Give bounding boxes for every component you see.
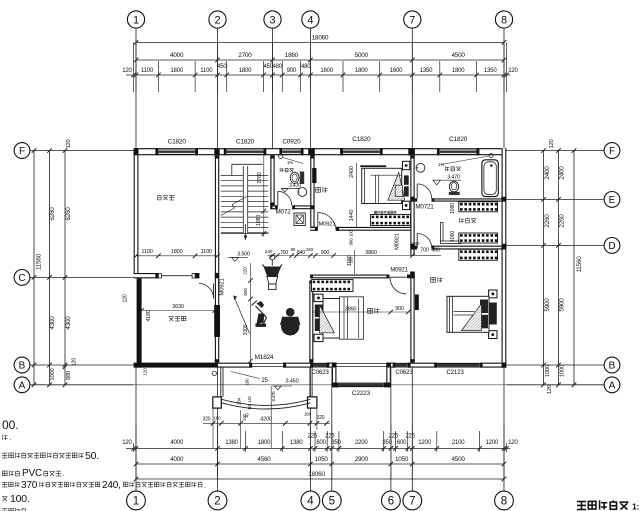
vert dim col x250 xyxy=(242,263,253,363)
dimension row top segments xyxy=(122,64,518,77)
door M0921 bedroom2 xyxy=(390,268,409,295)
svg-text:120: 120 xyxy=(508,440,518,446)
label sunroom xyxy=(169,316,186,321)
svg-text:.: . xyxy=(10,435,12,442)
exercise equipment xyxy=(252,301,267,327)
door M0921 sunroom xyxy=(199,277,226,298)
svg-text:900: 900 xyxy=(348,238,353,246)
svg-text:C0623: C0623 xyxy=(395,369,413,376)
label bathroom2 xyxy=(438,162,461,171)
svg-text:6260: 6260 xyxy=(49,207,56,221)
svg-text:1800: 1800 xyxy=(171,249,183,255)
svg-text:4300: 4300 xyxy=(65,316,72,330)
svg-text:4500: 4500 xyxy=(451,456,465,463)
svg-text:1: 1 xyxy=(133,15,139,27)
svg-text:2400: 2400 xyxy=(349,166,355,178)
svg-text:2: 2 xyxy=(214,15,220,27)
svg-text:00.: 00. xyxy=(2,418,19,432)
label bedroom3 xyxy=(431,277,443,283)
svg-text:900: 900 xyxy=(395,306,404,312)
svg-text:8: 8 xyxy=(501,496,507,508)
balcony leader 25 xyxy=(231,372,268,385)
window C1820 top-3 xyxy=(343,136,380,155)
window C1820 top-2 xyxy=(227,139,264,156)
svg-text:160: 160 xyxy=(245,378,250,385)
bed bedroom3 headboard xyxy=(489,303,497,325)
grid circle 4 top xyxy=(302,11,319,148)
svg-text:120: 120 xyxy=(508,68,518,74)
bay window walls xyxy=(332,368,391,388)
door M1824 balcony opening xyxy=(252,354,283,367)
svg-text:M0921: M0921 xyxy=(394,233,400,250)
wall left exterior xyxy=(134,148,139,277)
svg-text:3860: 3860 xyxy=(365,250,377,256)
svg-text:1800: 1800 xyxy=(258,440,271,446)
svg-text:4180: 4180 xyxy=(146,310,152,321)
svg-text:4: 4 xyxy=(307,496,314,508)
right dimension column xyxy=(541,139,583,394)
grid circle 8 bottom xyxy=(495,368,514,510)
label bedroom1 xyxy=(316,187,328,193)
dimension row bottom segments xyxy=(122,434,518,451)
wall row D interior xyxy=(415,246,502,250)
svg-text:120: 120 xyxy=(547,385,553,394)
svg-text:320: 320 xyxy=(317,415,325,421)
svg-text:5900: 5900 xyxy=(544,298,551,312)
svg-text:11560: 11560 xyxy=(36,253,43,270)
grid circle 8 top xyxy=(495,11,512,148)
washbasin bathroom2 xyxy=(416,163,425,172)
svg-text:B: B xyxy=(609,361,616,372)
svg-text:240: 240 xyxy=(265,249,273,255)
svg-text:8.475: 8.475 xyxy=(271,391,276,402)
grid circle D right xyxy=(506,238,619,254)
grid circle 2 bottom xyxy=(208,368,227,510)
svg-text:225: 225 xyxy=(405,434,415,440)
nightstands bedroom1 xyxy=(403,161,410,209)
svg-text:120: 120 xyxy=(66,139,72,148)
notes line5 xyxy=(2,480,206,491)
svg-text:7: 7 xyxy=(409,15,415,27)
svg-text:880: 880 xyxy=(66,371,72,380)
svg-text:320: 320 xyxy=(203,417,211,423)
window C2223 xyxy=(339,383,384,397)
svg-text:18060: 18060 xyxy=(308,471,325,478)
svg-text:3.470: 3.470 xyxy=(447,175,460,181)
closet cabinet top xyxy=(459,202,498,212)
wall bedroom1 south xyxy=(310,227,415,231)
bedroom2 dim 1180 xyxy=(347,250,354,274)
washbasin bathroom1 xyxy=(298,188,307,197)
svg-text:2: 2 xyxy=(214,496,220,508)
wall column2 interior xyxy=(215,155,219,362)
svg-text:225: 225 xyxy=(308,434,318,440)
svg-text:2760: 2760 xyxy=(257,172,263,183)
bed bedroom2 blanket xyxy=(320,305,335,333)
svg-text:900: 900 xyxy=(321,250,330,256)
svg-text:E: E xyxy=(609,195,616,206)
title text xyxy=(577,500,640,511)
svg-text:3300: 3300 xyxy=(243,324,249,335)
svg-text:1800: 1800 xyxy=(452,68,465,74)
grid circle A right xyxy=(506,377,619,393)
svg-text:225: 225 xyxy=(389,434,399,440)
svg-text:1080: 1080 xyxy=(450,203,456,214)
bedroom1 dim 2400 xyxy=(349,163,357,227)
svg-text:F: F xyxy=(609,146,615,157)
svg-text:1180: 1180 xyxy=(347,255,353,266)
balcony side rails xyxy=(221,368,312,398)
svg-text:1860: 1860 xyxy=(285,52,299,59)
svg-text:900: 900 xyxy=(243,288,249,296)
door M072 xyxy=(276,191,292,215)
wall top exterior xyxy=(134,148,507,155)
svg-text:1380: 1380 xyxy=(290,440,303,446)
svg-text:350: 350 xyxy=(331,440,341,446)
svg-text:1350: 1350 xyxy=(484,68,497,74)
grid circle B left xyxy=(14,357,134,373)
svg-text:1440: 1440 xyxy=(349,210,355,222)
wall right exterior xyxy=(502,148,507,368)
door M0721 xyxy=(415,184,434,211)
svg-text:140: 140 xyxy=(247,395,252,402)
bed bedroom1 pillows xyxy=(404,175,409,196)
grid circle B right xyxy=(506,357,619,373)
notes line4 xyxy=(2,468,64,479)
leader arrow living xyxy=(234,296,250,334)
grid circle 4 bottom xyxy=(301,368,320,510)
level 3.470 bathroom2 xyxy=(433,175,461,185)
bed bedroom2 pillows xyxy=(315,305,323,332)
balcony witness lines xyxy=(213,386,317,448)
svg-text:100: 100 xyxy=(348,229,353,236)
bed bedroom3 blanket xyxy=(462,304,482,331)
notes line3 xyxy=(2,450,99,462)
balcony pier left xyxy=(213,397,222,408)
svg-text:120: 120 xyxy=(72,358,78,366)
svg-text:1200: 1200 xyxy=(418,440,431,446)
svg-text:7: 7 xyxy=(409,496,415,508)
wall bathroom1 south xyxy=(273,205,313,209)
svg-text:900: 900 xyxy=(287,68,297,74)
armchair xyxy=(281,308,300,336)
grid circle 5 bottom xyxy=(322,368,341,510)
pier on column4 wall xyxy=(312,168,316,183)
window C0623 right xyxy=(395,363,413,376)
balcony dim row xyxy=(203,412,330,426)
svg-text:1%: 1% xyxy=(287,160,293,165)
grid circle A left xyxy=(14,377,134,393)
svg-text:240: 240 xyxy=(306,247,314,252)
door closet xyxy=(417,234,432,249)
wall row C storage/sunroom xyxy=(134,273,200,278)
grid circle C left xyxy=(14,270,134,286)
notes line1 xyxy=(2,418,19,432)
svg-text:1000: 1000 xyxy=(545,365,551,377)
svg-text:700: 700 xyxy=(420,248,429,254)
svg-text:1600: 1600 xyxy=(390,68,403,74)
bed bedroom1 frame xyxy=(360,166,402,203)
door M1824 storage opening xyxy=(158,273,195,278)
grid circle 3 top xyxy=(264,11,281,148)
svg-text:240: 240 xyxy=(412,241,420,247)
svg-text:180: 180 xyxy=(213,416,221,421)
staircase xyxy=(221,164,268,240)
svg-text:50.: 50. xyxy=(85,450,99,462)
wall column2 bedroom2 west xyxy=(309,281,313,363)
bottom witness lines xyxy=(134,425,507,479)
svg-text:2700: 2700 xyxy=(238,52,252,59)
wall column3 interior xyxy=(270,155,274,209)
svg-text:1100: 1100 xyxy=(141,68,154,74)
svg-text:3630: 3630 xyxy=(172,304,184,310)
slope line bathroom2 xyxy=(441,154,493,165)
level 3.470 bathroom1 xyxy=(282,183,302,192)
svg-text:600: 600 xyxy=(397,440,407,446)
svg-text:A: A xyxy=(19,380,26,391)
window C0920 top xyxy=(282,139,301,156)
dimension row bottom total 18060 xyxy=(134,471,507,481)
svg-text:4560: 4560 xyxy=(257,456,271,463)
closet cabinet middle xyxy=(459,233,498,243)
pier on column7 wall xyxy=(415,295,419,311)
svg-text:2900: 2900 xyxy=(355,456,369,463)
svg-text:8: 8 xyxy=(501,15,507,27)
svg-text:3.450: 3.450 xyxy=(286,379,299,385)
svg-text:M0921: M0921 xyxy=(319,222,336,228)
svg-text:3.500: 3.500 xyxy=(237,252,250,258)
svg-text:1060: 1060 xyxy=(450,231,456,242)
svg-text:180: 180 xyxy=(304,412,312,417)
svg-text:480: 480 xyxy=(272,64,282,70)
svg-text:.: . xyxy=(63,471,65,478)
dimension row bottom spans xyxy=(134,456,507,466)
bed bedroom1 blanket xyxy=(388,172,405,200)
grid circle E right xyxy=(506,192,619,208)
svg-text:C2223: C2223 xyxy=(352,390,371,397)
sunroom dims xyxy=(122,294,217,376)
svg-text:2400: 2400 xyxy=(559,166,566,180)
svg-text:D: D xyxy=(608,241,615,252)
door M0921 bedroom1 xyxy=(318,213,336,231)
svg-text:11560: 11560 xyxy=(576,256,583,273)
svg-text:C1820: C1820 xyxy=(168,139,187,146)
svg-text:2260: 2260 xyxy=(544,214,551,228)
grid circle 7 bottom xyxy=(403,368,422,510)
bathtub xyxy=(482,160,498,197)
grid circle F left xyxy=(14,143,134,159)
wall left sunroom xyxy=(137,277,142,367)
label storage room xyxy=(157,195,174,200)
pier on column2 wall xyxy=(214,305,220,337)
svg-text:A: A xyxy=(609,380,616,391)
svg-text:1100: 1100 xyxy=(200,68,213,74)
svg-text:C1820: C1820 xyxy=(236,139,255,146)
closet cabinet bottom xyxy=(459,249,498,260)
level 3.450 xyxy=(272,379,299,391)
bed bedroom2 frame xyxy=(323,297,364,339)
svg-text:120: 120 xyxy=(122,440,132,446)
svg-text:1000: 1000 xyxy=(560,365,566,377)
svg-text:1600: 1600 xyxy=(320,68,333,74)
balcony pier right xyxy=(308,397,317,408)
grid circle 6 bottom xyxy=(382,368,401,510)
svg-text:6: 6 xyxy=(388,496,394,508)
svg-text:100.: 100. xyxy=(10,493,30,505)
svg-text:700: 700 xyxy=(280,250,288,256)
svg-text:225: 225 xyxy=(325,434,335,440)
notes line7 xyxy=(2,508,26,511)
closet dims xyxy=(450,203,456,242)
svg-text:B: B xyxy=(19,361,26,372)
svg-text:80: 80 xyxy=(290,247,295,252)
row A line across xyxy=(134,384,507,386)
svg-text:600: 600 xyxy=(316,440,326,446)
bedside table hatch xyxy=(395,185,402,196)
dresser bedroom2 xyxy=(312,280,354,292)
level 3.500 xyxy=(228,252,250,262)
svg-text:3860: 3860 xyxy=(345,307,357,313)
svg-text:1200: 1200 xyxy=(486,440,499,446)
svg-text:5900: 5900 xyxy=(559,298,566,312)
svg-text:F: F xyxy=(19,146,25,157)
svg-text:M0921: M0921 xyxy=(219,277,225,295)
svg-text:M0721: M0721 xyxy=(415,204,434,211)
window C2123 xyxy=(437,363,480,376)
svg-text:1800: 1800 xyxy=(239,68,252,74)
svg-text:254: 254 xyxy=(237,397,242,404)
window C1820 top-4 xyxy=(440,136,477,155)
svg-text:370: 370 xyxy=(21,480,38,491)
internal dims hallway xyxy=(265,247,415,258)
storage room dims xyxy=(134,249,220,258)
rain pipe circle xyxy=(212,371,216,375)
svg-text:240: 240 xyxy=(242,413,247,420)
svg-text:C1820: C1820 xyxy=(449,136,468,143)
svg-text:5000: 5000 xyxy=(355,52,369,59)
closet partition wall xyxy=(441,222,461,243)
svg-text:120: 120 xyxy=(122,294,128,302)
svg-text:1800: 1800 xyxy=(170,68,183,74)
svg-text:1: 1 xyxy=(133,496,139,508)
closet door dims xyxy=(412,241,441,255)
svg-text:C1820: C1820 xyxy=(352,136,371,143)
svg-text:25: 25 xyxy=(261,378,268,384)
svg-text:1:: 1: xyxy=(632,502,640,511)
svg-text:2260: 2260 xyxy=(559,214,566,228)
dimension row top total 18060 xyxy=(134,35,507,45)
svg-text:480: 480 xyxy=(301,64,311,70)
svg-text:240,: 240, xyxy=(102,480,121,491)
svg-text:4000: 4000 xyxy=(170,440,183,446)
svg-text:116: 116 xyxy=(247,403,252,410)
svg-text:4200: 4200 xyxy=(260,416,272,422)
svg-text:18060: 18060 xyxy=(312,35,329,42)
label closet room xyxy=(460,218,477,223)
svg-text:460: 460 xyxy=(431,248,440,254)
bottom wall jamb caps xyxy=(249,363,506,368)
label bathroom1 xyxy=(280,160,294,172)
bay opening threshold xyxy=(337,363,387,366)
svg-text:120: 120 xyxy=(122,68,132,74)
svg-text:1380: 1380 xyxy=(225,440,238,446)
svg-text:4: 4 xyxy=(307,15,313,27)
bedroom2 internal dims xyxy=(312,306,411,314)
left dimension column xyxy=(32,139,78,387)
svg-text:1100: 1100 xyxy=(201,249,212,255)
svg-text:6260: 6260 xyxy=(65,207,72,221)
svg-text:M0921: M0921 xyxy=(390,268,408,274)
svg-text:1800: 1800 xyxy=(355,68,368,74)
wall row C bedroom2 north xyxy=(310,275,415,279)
top wall jamb caps xyxy=(134,148,507,155)
svg-text:2100: 2100 xyxy=(452,440,465,446)
grid circle 1 bottom xyxy=(127,368,146,510)
svg-text:C0623: C0623 xyxy=(311,369,329,376)
top witness lines xyxy=(134,42,507,92)
balcony small dims xyxy=(237,378,277,418)
nightstands bedroom3 xyxy=(489,290,497,339)
svg-text:1100: 1100 xyxy=(141,249,152,255)
window C0623 left xyxy=(311,363,329,376)
svg-text:4000: 4000 xyxy=(170,52,184,59)
svg-text:4300: 4300 xyxy=(49,316,56,330)
svg-text:1000: 1000 xyxy=(50,368,56,380)
svg-text:2400: 2400 xyxy=(544,166,551,180)
toilet bathroom2 xyxy=(449,181,460,195)
balcony curved railing xyxy=(222,399,311,409)
svg-text:120: 120 xyxy=(549,139,555,148)
svg-text:1350: 1350 xyxy=(420,68,433,74)
notes line2 xyxy=(3,435,12,443)
bed bedroom3 pillows xyxy=(480,300,488,329)
washing machine xyxy=(294,213,305,226)
cabinet under bed1 xyxy=(370,211,410,226)
svg-text:450: 450 xyxy=(217,64,227,70)
svg-text:1050: 1050 xyxy=(314,456,328,463)
svg-text:120: 120 xyxy=(143,368,149,376)
svg-text:220: 220 xyxy=(242,267,248,275)
svg-text:M1824: M1824 xyxy=(255,354,274,361)
svg-text:840: 840 xyxy=(297,250,305,256)
grid circle F right xyxy=(506,143,619,159)
svg-text:C: C xyxy=(18,273,25,284)
window C1820 top-1 xyxy=(158,139,195,156)
svg-text:.: . xyxy=(204,483,206,490)
stair dim 2760 xyxy=(256,155,266,237)
wall row E interior xyxy=(415,198,502,201)
svg-text:4500: 4500 xyxy=(451,52,465,59)
nightstands bedroom2 xyxy=(314,294,323,341)
svg-text:5: 5 xyxy=(329,496,335,508)
wall column7 interior xyxy=(410,155,414,362)
dimension row top spans xyxy=(134,52,507,62)
floor drain bathroom1 xyxy=(279,154,303,163)
grid circle 1 top xyxy=(127,11,144,148)
svg-text:C2123: C2123 xyxy=(446,369,464,376)
grid circle 7 top xyxy=(404,11,421,148)
bed bedroom3 frame xyxy=(447,296,489,332)
svg-text:1050: 1050 xyxy=(395,456,409,463)
grid circle 2 top xyxy=(209,11,226,148)
svg-text:3: 3 xyxy=(269,15,275,27)
toilet bathroom1 xyxy=(290,172,304,185)
svg-text:1080: 1080 xyxy=(256,215,262,226)
coat rack symbol xyxy=(263,255,283,290)
label bedroom2 xyxy=(368,308,380,314)
svg-text:C0920: C0920 xyxy=(282,139,301,146)
wall column4 interior xyxy=(310,155,314,231)
